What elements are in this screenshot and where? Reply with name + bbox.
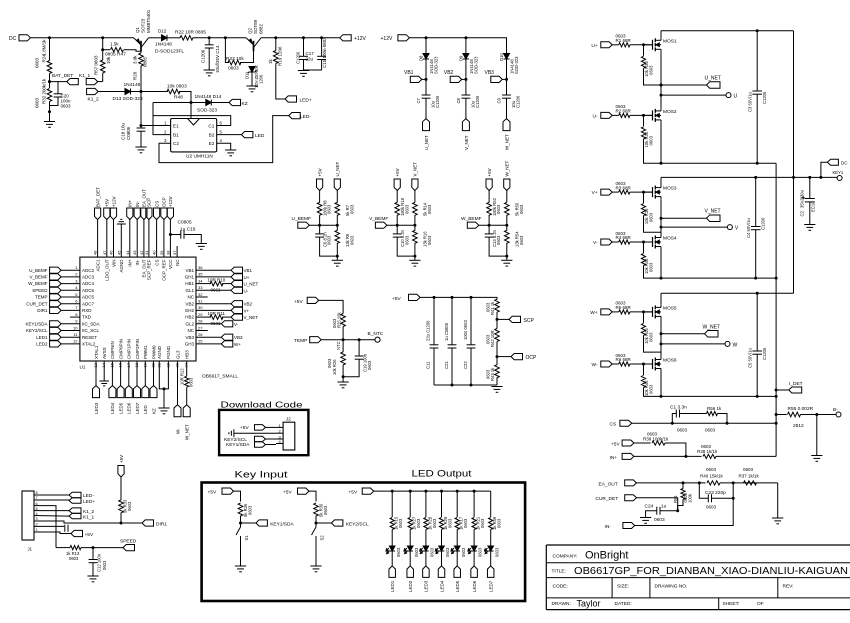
capacitor C11 22u C1206 — [433, 297, 435, 344]
ground — [640, 517, 651, 519]
svg-text:7: 7 — [36, 496, 38, 500]
svg-text:30: 30 — [198, 305, 203, 310]
svg-text:KEY1/SDA: KEY1/SDA — [25, 321, 47, 326]
svg-text:0603: 0603 — [649, 384, 654, 394]
svg-text:W_NET: W_NET — [505, 160, 510, 176]
svg-text:1206: 1206 — [259, 74, 264, 84]
box key/led — [202, 483, 525, 602]
capacitor C23 220p — [699, 483, 708, 498]
wire MOS5 drain to top rail — [660, 293, 662, 305]
ground — [342, 375, 345, 378]
svg-text:CMP2PIN: CMP2PIN — [135, 339, 140, 359]
svg-text:0603: 0603 — [427, 204, 432, 214]
svg-text:SOD-323: SOD-323 — [197, 107, 217, 113]
svg-text:NC: NC — [188, 328, 195, 333]
node +5V key S2 — [298, 488, 310, 494]
node +5V U_BEMF block — [317, 179, 323, 191]
svg-text:SCP: SCP — [147, 198, 152, 207]
svg-text:OF: OF — [757, 601, 764, 607]
svg-text:DRAWN:: DRAWN: — [552, 601, 571, 607]
pin 6 ADC7 — [61, 303, 80, 305]
resistor R49 1k — [490, 491, 492, 517]
svg-text:KZ: KZ — [151, 408, 156, 414]
wire MOS2 source to bottom rail — [660, 122, 662, 163]
wire D9 to node — [465, 59, 467, 95]
svg-text:DIR1: DIR1 — [37, 308, 48, 313]
transistor MOS3 — [644, 191, 653, 193]
pin 2 ADC3 — [61, 276, 80, 278]
svg-text:C2: C2 — [800, 210, 805, 216]
svg-text:C1206: C1206 — [762, 347, 767, 360]
node SCP — [496, 318, 499, 321]
svg-text:LED7: LED7 — [489, 580, 494, 592]
resistor R41 1k — [495, 299, 500, 312]
svg-text:IN+: IN+ — [128, 259, 133, 267]
svg-text:COMPANY:: COMPANY: — [553, 554, 578, 560]
node U terminal — [661, 94, 726, 96]
svg-text:0603: 0603 — [649, 135, 654, 145]
svg-text:SOT23: SOT23 — [141, 18, 146, 33]
svg-text:+5V: +5V — [240, 425, 249, 431]
resistor R56 1k — [680, 413, 707, 415]
svg-text:U1: U1 — [80, 364, 86, 369]
wire +12V rail — [409, 38, 506, 54]
LED diode LED2 — [407, 546, 413, 551]
pin 34 HB1 — [196, 283, 211, 285]
svg-text:R42 10R: R42 10R — [490, 330, 495, 347]
svg-text:LED+: LED+ — [83, 499, 95, 505]
resistor R20 3.0k — [139, 53, 144, 66]
svg-text:0603: 0603 — [480, 518, 485, 528]
capacitor C6 8.2n — [319, 225, 321, 234]
LED diode LED6 — [471, 546, 477, 551]
node KEY1/SDA — [239, 522, 242, 525]
wire D10 to node — [506, 59, 508, 95]
svg-text:U_NET: U_NET — [244, 282, 259, 287]
svg-text:TEMP: TEMP — [294, 338, 307, 344]
pin 11 RESET — [61, 336, 80, 338]
svg-text:Q2: Q2 — [248, 27, 253, 34]
svg-text:0603: 0603 — [430, 547, 435, 557]
wire U_BEMF node — [309, 224, 337, 226]
node U_NET — [334, 179, 340, 191]
wire +5V rail scp — [420, 297, 497, 299]
svg-text:R24: R24 — [42, 54, 47, 63]
svg-text:0603: 0603 — [706, 505, 717, 510]
resistor R13 1k speed — [56, 547, 70, 549]
node VB3 — [502, 78, 506, 80]
svg-text:C0805: C0805 — [126, 126, 131, 140]
title block frame — [546, 544, 850, 546]
wire right bus battery+ — [793, 31, 795, 294]
svg-text:0603: 0603 — [432, 518, 437, 528]
svg-text:5: 5 — [36, 507, 38, 511]
resistor R3 68R — [612, 191, 619, 193]
LED diode LED5 — [454, 546, 460, 551]
resistor R29 1k — [441, 491, 443, 517]
capacitor C10 8.2n — [396, 225, 398, 234]
svg-text:VCC: VCC — [168, 259, 173, 269]
resistor R2 68R — [612, 114, 619, 116]
svg-text:OCP_REF: OCP_REF — [162, 259, 167, 281]
svg-text:V+: V+ — [244, 308, 250, 313]
svg-text:MOS6: MOS6 — [663, 358, 677, 364]
svg-text:KEY1/SDA: KEY1/SDA — [270, 521, 294, 527]
pin 1 J2 — [276, 426, 283, 428]
svg-text:OCP: OCP — [526, 355, 538, 361]
svg-text:J2: J2 — [286, 417, 291, 422]
svg-text:ADC4: ADC4 — [82, 281, 95, 286]
resistor R38 1k/1k — [703, 454, 716, 458]
node W+ — [601, 309, 612, 315]
svg-text:C11: C11 — [426, 361, 431, 369]
node DC input — [19, 35, 31, 41]
svg-text:0603: 0603 — [463, 518, 468, 528]
svg-text:0603: 0603 — [404, 235, 409, 245]
svg-text:U_NET: U_NET — [705, 76, 721, 82]
svg-text:C5 50V/1u: C5 50V/1u — [748, 348, 753, 368]
svg-text:C24: C24 — [645, 503, 654, 509]
svg-text:HB2: HB2 — [185, 315, 194, 320]
pin 5 ADC5 — [61, 296, 80, 298]
node W_NET — [661, 333, 705, 335]
node SPEED — [92, 546, 95, 549]
svg-text:0603: 0603 — [519, 235, 524, 245]
ground — [777, 483, 779, 518]
svg-text:CUR_DET: CUR_DET — [26, 301, 48, 306]
svg-text:40: 40 — [152, 250, 157, 255]
svg-text:SOD-323: SOD-323 — [473, 56, 478, 74]
svg-text:OB6617_SMALL: OB6617_SMALL — [202, 374, 238, 380]
transistor MOS1 — [644, 44, 653, 46]
svg-text:100k: 100k — [687, 493, 692, 503]
connector J2 — [283, 422, 295, 450]
wire CUR_DET row — [637, 498, 678, 511]
node KEY1 — [837, 176, 842, 181]
svg-text:PGND: PGND — [166, 345, 171, 359]
svg-text:1N4148: 1N4148 — [155, 41, 172, 47]
svg-text:C2: C2 — [173, 141, 179, 146]
pin 29 HB2 — [196, 316, 211, 318]
svg-text:J1: J1 — [28, 547, 33, 552]
wire B1 link — [153, 103, 171, 135]
svg-text:+5V: +5V — [85, 532, 94, 538]
svg-text:0603: 0603 — [519, 204, 524, 214]
svg-text:LED4: LED4 — [110, 402, 115, 414]
box download code — [219, 410, 308, 455]
svg-text:C0805: C0805 — [178, 219, 192, 225]
svg-text:GL2: GL2 — [185, 321, 194, 326]
svg-text:0603: 0603 — [398, 518, 403, 528]
resistor R37 1k/1k — [744, 481, 757, 485]
pin 8 J1 — [34, 494, 40, 496]
pin 41 SCP_REF — [148, 220, 150, 258]
svg-text:LED7: LED7 — [135, 402, 140, 414]
svg-text:V_NET: V_NET — [244, 315, 259, 320]
wire branch VB1 — [425, 38, 427, 54]
svg-text:Q1: Q1 — [135, 26, 140, 33]
svg-text:IN-: IN- — [135, 259, 140, 266]
svg-text:IIC_SDA: IIC_SDA — [82, 321, 100, 326]
pin 7 J1 — [34, 499, 40, 501]
wire top rail V — [661, 176, 794, 178]
resistor R54 13k — [506, 225, 508, 230]
node W- — [601, 361, 612, 367]
svg-text:KEY2/SCL: KEY2/SCL — [26, 328, 48, 333]
svg-text:10uf/35V C14: 10uf/35V C14 — [215, 45, 220, 73]
svg-text:V_BEMF: V_BEMF — [369, 216, 388, 222]
pin 8 TXD — [70, 316, 80, 318]
svg-text:E2: E2 — [209, 141, 215, 146]
pin 38 VCC — [169, 220, 171, 258]
wire Q2 collector rail — [261, 37, 340, 39]
capacitor C21 1u C0805 — [451, 297, 453, 344]
ground — [240, 543, 242, 566]
wire U2 pin4 E2 — [217, 143, 231, 150]
svg-text:12: 12 — [73, 339, 78, 344]
svg-text:8: 8 — [36, 491, 38, 495]
wire W_BEMF node — [479, 224, 507, 226]
svg-text:35V/330u: 35V/330u — [800, 189, 805, 208]
ground — [298, 70, 309, 72]
svg-text:D10: D10 — [499, 53, 504, 61]
capacitor C22 100n — [470, 297, 472, 344]
ground — [246, 85, 257, 87]
svg-text:LED5: LED5 — [118, 402, 123, 414]
wire +5V to R25 — [319, 300, 343, 313]
resistor R15 1k — [391, 491, 393, 517]
diode D12 1N4148 — [162, 35, 168, 41]
capacitor C9 10u C1206 — [502, 94, 511, 96]
svg-text:GH1: GH1 — [185, 275, 195, 280]
svg-text:IN-: IN- — [135, 201, 140, 208]
wire scp bottom rail — [434, 384, 497, 386]
svg-text:10k: 10k — [236, 56, 244, 62]
svg-text:IN+: IN+ — [610, 455, 618, 461]
svg-text:LED1: LED1 — [36, 335, 48, 340]
wire K1_2 to D13 — [98, 91, 125, 93]
svg-text:ADC6: ADC6 — [82, 288, 95, 293]
svg-text:DC: DC — [9, 36, 17, 42]
resistor R7 5k — [336, 191, 338, 203]
svg-text:IN+: IN+ — [128, 200, 133, 208]
svg-text:CMP1PIN: CMP1PIN — [127, 339, 132, 359]
svg-text:KEY1: KEY1 — [833, 170, 844, 175]
svg-text:1u: 1u — [661, 503, 667, 509]
svg-text:0805: 0805 — [143, 56, 148, 67]
pin 3 J1 — [34, 520, 40, 522]
svg-text:0805 R47: 0805 R47 — [105, 51, 126, 57]
svg-text:10k R26: 10k R26 — [332, 359, 337, 375]
ground AGND — [117, 223, 126, 225]
svg-text:S2: S2 — [320, 535, 325, 541]
svg-text:+12V: +12V — [381, 36, 393, 42]
svg-text:26: 26 — [198, 332, 203, 337]
wire AGND PGND join — [159, 361, 164, 389]
capacitor C17 22u — [302, 36, 305, 39]
svg-text:SPEED: SPEED — [32, 288, 48, 293]
pin 43 IN- — [136, 220, 138, 258]
svg-text:R3 68R: R3 68R — [616, 185, 632, 190]
connector J1 — [22, 491, 34, 540]
diode D10 1N4148 — [504, 54, 510, 60]
svg-text:CMP0PIN: CMP0PIN — [118, 339, 123, 359]
node LED3 — [423, 566, 430, 578]
capacitor C20 100n — [48, 80, 51, 83]
svg-text:REV:: REV: — [783, 584, 794, 590]
transistor MOS2 — [644, 114, 653, 116]
svg-text:W-: W- — [592, 362, 598, 368]
capacitor C24 1u — [660, 510, 678, 512]
node EA_OUT — [625, 480, 637, 486]
svg-text:32: 32 — [198, 292, 203, 297]
svg-text:0603: 0603 — [404, 204, 409, 214]
svg-text:0603: 0603 — [61, 104, 72, 109]
wire pin2 cap — [40, 525, 64, 527]
svg-text:1N4148 D14: 1N4148 D14 — [195, 94, 222, 100]
ground — [816, 415, 818, 456]
svg-text:MOS3: MOS3 — [663, 186, 677, 192]
capacitor C7 10u C1206 — [422, 94, 431, 96]
svg-text:10R R10: 10R R10 — [208, 277, 226, 282]
node LED6 — [471, 566, 478, 578]
resistor R21 1k — [473, 491, 475, 517]
svg-text:C23 220p: C23 220p — [705, 490, 726, 496]
svg-text:0603: 0603 — [705, 428, 716, 433]
wire J2 pin2 gnd — [234, 432, 276, 434]
svg-text:R39 100k/1k: R39 100k/1k — [643, 436, 669, 441]
svg-text:U-: U- — [244, 288, 249, 293]
svg-text:AGND: AGND — [119, 259, 124, 273]
svg-text:R56 1k: R56 1k — [707, 406, 722, 411]
pin 30 GH2 — [196, 309, 231, 311]
svg-text:LED Output: LED Output — [412, 469, 473, 479]
svg-text:25: 25 — [198, 339, 203, 344]
svg-text:C4 50V/1u: C4 50V/1u — [746, 218, 751, 238]
svg-text:R57 0603: R57 0603 — [94, 55, 99, 75]
node U_BEMF — [298, 222, 310, 228]
pin 4 ADC6 — [61, 289, 80, 291]
svg-text:1N4148: 1N4148 — [124, 82, 141, 88]
svg-text:0603: 0603 — [416, 518, 421, 528]
svg-text:SOT89: SOT89 — [253, 19, 258, 34]
wire CS row — [632, 422, 776, 424]
svg-text:TITLE:: TITLE: — [552, 569, 566, 575]
svg-text:D13 SOD-323: D13 SOD-323 — [113, 96, 143, 102]
node OCP — [496, 355, 499, 358]
resistor R12 10R — [186, 361, 188, 376]
svg-text:DC: DC — [841, 161, 848, 166]
pin 4 J1 — [34, 515, 40, 517]
svg-text:0603: 0603 — [35, 97, 40, 108]
ground — [804, 224, 815, 226]
node U_NET — [423, 119, 430, 131]
svg-text:+5V: +5V — [208, 490, 217, 496]
pin 31 VB2 — [196, 303, 231, 305]
svg-text:R55 0.002R: R55 0.002R — [788, 406, 814, 412]
svg-text:0603: 0603 — [654, 517, 665, 523]
ground — [135, 146, 146, 148]
svg-text:0603: 0603 — [228, 66, 239, 72]
wire MOS6 source to bottom rail — [660, 371, 662, 396]
svg-text:0603: 0603 — [189, 377, 194, 387]
transistor Q2 SOT89 — [253, 41, 255, 52]
svg-text:29: 29 — [198, 312, 203, 317]
node B- — [815, 413, 818, 416]
node TEMP — [310, 337, 322, 343]
svg-text:MOS1: MOS1 — [663, 38, 677, 44]
svg-text:R4 68R: R4 68R — [616, 235, 632, 240]
svg-text:R19 1206: R19 1206 — [278, 46, 283, 66]
svg-text:C7: C7 — [416, 97, 421, 103]
node K1_1 — [98, 81, 103, 83]
pin 27 NC — [196, 330, 208, 332]
wire U2 pin3 C2 loop to LED- — [159, 116, 289, 163]
svg-text:U_NET: U_NET — [335, 161, 340, 176]
resistor R44 10k pulldown — [643, 242, 645, 253]
svg-text:0603: 0603 — [349, 204, 354, 214]
svg-text:22u C1206: 22u C1206 — [426, 320, 431, 341]
resistor R33 10k pulldown — [643, 45, 645, 56]
svg-text:W_NET: W_NET — [505, 134, 510, 150]
svg-text:1.5k: 1.5k — [110, 42, 119, 47]
svg-text:HB1: HB1 — [185, 281, 194, 286]
pin 10 IIC_SCL — [61, 330, 80, 332]
switch S2 — [315, 523, 317, 527]
wire +5V to R30 — [309, 491, 316, 501]
wire right bus sense — [775, 163, 777, 456]
svg-text:0603: 0603 — [496, 204, 501, 214]
svg-text:V+: V+ — [592, 190, 598, 196]
svg-text:VB3: VB3 — [185, 335, 194, 340]
node I_DET — [776, 389, 789, 391]
node K1_2 — [87, 88, 99, 94]
resistor R19 1k 1206 — [274, 36, 277, 39]
svg-text:0603: 0603 — [414, 547, 419, 557]
resistor R18 180k — [396, 191, 398, 203]
node KZ — [153, 361, 155, 386]
svg-text:CS: CS — [154, 260, 159, 266]
pin 2 J1 — [34, 525, 40, 527]
wire EA_OUT row — [637, 482, 706, 484]
svg-text:LED6: LED6 — [472, 580, 477, 592]
transistor MOS6 — [644, 363, 653, 365]
resistor R46 10k pulldown — [643, 364, 645, 375]
svg-text:LDO_OUT: LDO_OUT — [105, 259, 110, 281]
svg-text:U: U — [734, 94, 738, 100]
svg-text:C1206: C1206 — [516, 95, 521, 108]
svg-text:LED2: LED2 — [36, 342, 48, 347]
node W- pin23 — [177, 361, 179, 405]
svg-text:R2 68R: R2 68R — [616, 109, 632, 114]
svg-text:LED3: LED3 — [424, 580, 429, 592]
svg-text:GH3: GH3 — [185, 342, 195, 347]
resistor R40 15k/1k — [707, 481, 720, 485]
svg-text:DRAWING NO:: DRAWING NO: — [655, 584, 688, 590]
node B_NTC — [375, 337, 380, 342]
svg-text:R37 1k/1k: R37 1k/1k — [739, 473, 760, 478]
svg-text:39: 39 — [159, 250, 164, 255]
node +5V led rail — [362, 488, 374, 494]
pin 47 LDO_OUT — [106, 220, 108, 258]
svg-text:IIC_SCL: IIC_SCL — [82, 328, 100, 333]
wire U2 pin5 B2 to LED — [217, 134, 242, 136]
svg-text:D9: D9 — [458, 55, 463, 61]
pin 33 GL1 — [196, 289, 231, 291]
svg-text:3.0k: 3.0k — [133, 55, 138, 64]
pin 37 NC — [176, 246, 178, 257]
wire D14 net — [153, 102, 206, 104]
